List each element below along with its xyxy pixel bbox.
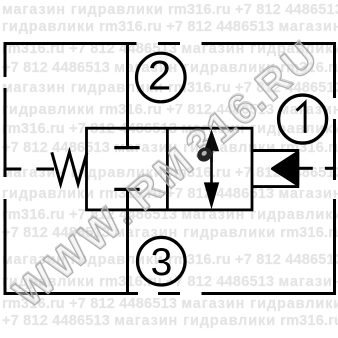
watermark dark bevel blob on arrow <box>194 144 214 164</box>
pilot triangle <box>272 152 298 185</box>
envelope top border (dashed) <box>4 42 336 45</box>
pilot actuator box <box>252 151 298 187</box>
wire port 3 line <box>126 189 129 293</box>
port circle 3 <box>138 237 186 285</box>
port circle 1 <box>279 95 327 143</box>
svg-text:3: 3 <box>151 241 173 284</box>
envelope bottom border (dashed) <box>4 292 336 295</box>
spring W <box>52 152 87 184</box>
blocked port T top <box>114 146 139 149</box>
spring drain line left (dashed) <box>4 168 54 171</box>
envelope left border (dashed) <box>4 42 7 295</box>
flow arrow down head <box>204 182 219 209</box>
watermark text rows (магазин гидравлики rm316.ru) <box>2 3 338 18</box>
port circle 2 <box>137 53 186 102</box>
svg-text:2: 2 <box>148 52 171 99</box>
wire port 2 line <box>126 44 129 148</box>
flow arrow up head <box>204 130 219 152</box>
blocked port T bottom <box>114 188 139 191</box>
pilot line right (dashed) <box>298 167 336 170</box>
wire port 3 line redraw over watermark <box>126 210 129 240</box>
valve body box <box>87 128 253 210</box>
port label 1 <box>297 103 306 133</box>
valve position divider <box>166 128 169 210</box>
envelope right border (dashed) <box>333 42 336 295</box>
flow arrow up head redraw over watermark <box>204 130 219 151</box>
flow arrow shaft <box>210 147 213 186</box>
